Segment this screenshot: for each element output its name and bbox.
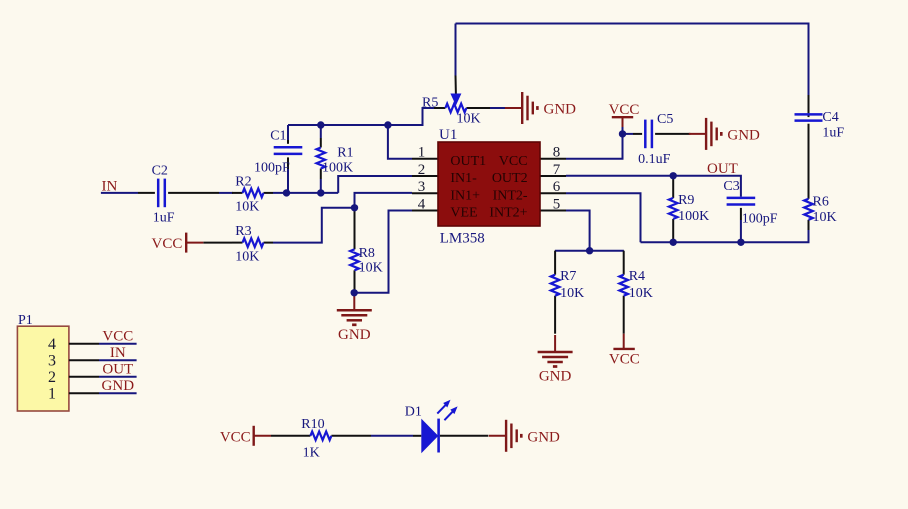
svg-text:R6: R6 — [813, 194, 829, 209]
svg-text:1uF: 1uF — [822, 126, 844, 141]
svg-text:LM358: LM358 — [440, 231, 485, 247]
svg-text:C2: C2 — [152, 163, 168, 178]
svg-text:R3: R3 — [235, 224, 251, 239]
svg-text:OUT2: OUT2 — [492, 171, 528, 186]
svg-text:GND: GND — [527, 429, 560, 445]
svg-text:U1: U1 — [439, 127, 457, 143]
svg-text:P1: P1 — [18, 313, 33, 328]
svg-text:C3: C3 — [723, 179, 739, 194]
svg-text:VCC: VCC — [609, 352, 640, 368]
svg-text:C4: C4 — [822, 110, 838, 125]
svg-text:GND: GND — [338, 327, 371, 343]
svg-text:10K: 10K — [235, 200, 259, 215]
svg-text:5: 5 — [553, 196, 561, 212]
svg-text:INT2-: INT2- — [493, 188, 528, 203]
svg-text:2: 2 — [418, 162, 426, 178]
svg-text:INT2+: INT2+ — [489, 206, 527, 221]
svg-text:10K: 10K — [813, 210, 837, 225]
svg-text:100pF: 100pF — [254, 160, 290, 175]
svg-text:IN1-: IN1- — [450, 171, 477, 186]
svg-text:4: 4 — [418, 196, 426, 212]
svg-text:IN1+: IN1+ — [450, 188, 480, 203]
svg-text:2: 2 — [48, 369, 56, 386]
svg-text:OUT: OUT — [102, 361, 133, 377]
svg-text:0.1uF: 0.1uF — [638, 152, 671, 167]
svg-text:IN: IN — [102, 179, 118, 195]
svg-text:VCC: VCC — [220, 429, 251, 445]
svg-text:8: 8 — [553, 145, 561, 161]
svg-text:C1: C1 — [270, 129, 286, 144]
svg-text:VCC: VCC — [102, 328, 133, 344]
svg-text:VCC: VCC — [609, 102, 640, 118]
svg-text:C5: C5 — [657, 112, 673, 127]
svg-text:R9: R9 — [678, 193, 694, 208]
svg-text:10K: 10K — [629, 286, 653, 301]
svg-text:1: 1 — [418, 145, 426, 161]
svg-text:R1: R1 — [337, 146, 353, 161]
svg-text:GND: GND — [727, 127, 760, 143]
svg-text:R2: R2 — [235, 174, 251, 189]
svg-text:GND: GND — [102, 378, 135, 394]
svg-text:GND: GND — [539, 369, 572, 385]
svg-text:3: 3 — [418, 179, 426, 195]
svg-text:10K: 10K — [235, 249, 259, 264]
svg-text:10K: 10K — [560, 286, 584, 301]
svg-text:3: 3 — [48, 353, 56, 370]
svg-text:R5: R5 — [422, 96, 438, 111]
svg-text:1K: 1K — [303, 446, 320, 461]
svg-text:1uF: 1uF — [153, 211, 175, 226]
svg-text:R7: R7 — [560, 269, 576, 284]
svg-text:4: 4 — [48, 336, 56, 353]
svg-text:100K: 100K — [322, 160, 353, 175]
svg-text:VCC: VCC — [152, 236, 183, 252]
svg-text:7: 7 — [553, 162, 561, 178]
svg-text:R10: R10 — [301, 417, 324, 432]
svg-text:10K: 10K — [457, 112, 481, 127]
svg-text:R4: R4 — [629, 269, 645, 284]
svg-text:1: 1 — [48, 386, 56, 403]
svg-text:6: 6 — [553, 179, 561, 195]
svg-text:100K: 100K — [678, 209, 709, 224]
svg-text:100pF: 100pF — [742, 211, 778, 226]
svg-text:10K: 10K — [359, 260, 383, 275]
svg-text:GND: GND — [544, 102, 577, 118]
svg-text:VCC: VCC — [499, 154, 528, 169]
svg-text:R8: R8 — [359, 246, 375, 261]
svg-text:OUT1: OUT1 — [450, 154, 486, 169]
svg-text:VEE: VEE — [450, 206, 477, 221]
svg-text:OUT: OUT — [707, 161, 738, 177]
svg-text:D1: D1 — [405, 405, 422, 420]
svg-text:IN: IN — [110, 345, 126, 361]
